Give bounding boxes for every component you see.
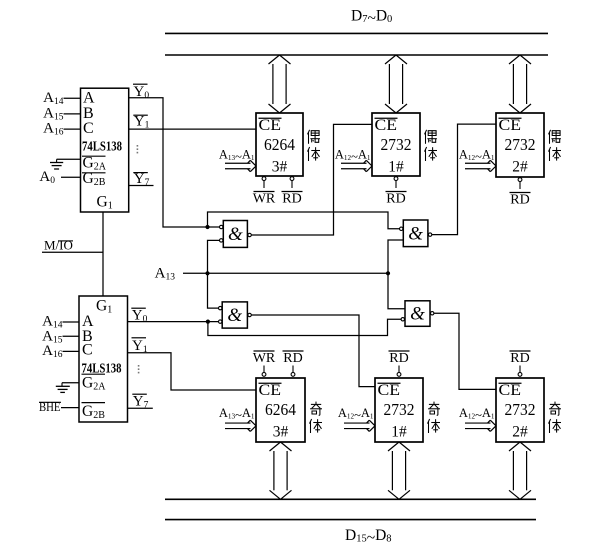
svg-text:6264: 6264 — [265, 400, 296, 419]
svg-text:WR: WR — [253, 191, 276, 206]
svg-text:G2A: G2A — [82, 374, 106, 392]
svg-text:G1: G1 — [96, 297, 112, 315]
svg-text:&: & — [228, 224, 243, 245]
svg-text:RD: RD — [510, 351, 529, 366]
svg-text:A12~A1: A12~A1 — [459, 406, 495, 422]
svg-text:CE: CE — [499, 117, 522, 134]
svg-text:RD: RD — [282, 191, 301, 206]
svg-text:A12~A1: A12~A1 — [338, 406, 374, 422]
svg-text:WR: WR — [253, 351, 276, 366]
svg-text:&: & — [227, 305, 242, 326]
svg-text:Y1: Y1 — [134, 114, 150, 131]
svg-text:3#: 3# — [273, 424, 289, 441]
svg-text:74LS138: 74LS138 — [82, 139, 122, 154]
svg-text:2#: 2# — [512, 424, 528, 441]
svg-text:D15~D8: D15~D8 — [345, 527, 392, 546]
svg-text:CE: CE — [378, 382, 401, 399]
svg-text:G2B: G2B — [82, 403, 105, 421]
svg-text:2732: 2732 — [381, 135, 412, 154]
svg-text:RD: RD — [386, 191, 405, 206]
svg-text:RD: RD — [283, 351, 302, 366]
svg-text:&: & — [410, 304, 425, 325]
svg-text:D7~D0: D7~D0 — [351, 8, 392, 27]
svg-text:CE: CE — [259, 382, 282, 399]
svg-text:M/IO: M/IO — [44, 238, 73, 253]
svg-text:3#: 3# — [272, 159, 288, 176]
svg-text:A16: A16 — [42, 343, 63, 360]
svg-text:RD: RD — [510, 192, 529, 207]
svg-text:C: C — [83, 120, 94, 137]
svg-text:G1: G1 — [97, 193, 113, 211]
svg-text:&: & — [408, 223, 423, 244]
svg-text:CE: CE — [499, 382, 522, 399]
svg-text:CE: CE — [375, 117, 398, 134]
svg-text:RD: RD — [389, 351, 408, 366]
svg-text:BHE: BHE — [39, 399, 61, 414]
svg-text:C: C — [82, 341, 93, 358]
svg-text:6264: 6264 — [264, 135, 295, 154]
svg-text:2732: 2732 — [384, 400, 415, 419]
svg-text:A13: A13 — [155, 266, 176, 283]
svg-text:CE: CE — [259, 117, 282, 134]
svg-text:1#: 1# — [388, 159, 404, 176]
svg-text:A13~A1: A13~A1 — [219, 406, 255, 422]
svg-text:2#: 2# — [512, 159, 528, 176]
svg-text:1#: 1# — [391, 424, 407, 441]
svg-text:A0: A0 — [39, 169, 55, 186]
svg-text:A: A — [83, 89, 95, 106]
svg-text:2732: 2732 — [505, 400, 536, 419]
svg-text:A16: A16 — [43, 121, 64, 138]
svg-text:A14: A14 — [43, 90, 64, 107]
svg-text:2732: 2732 — [505, 135, 536, 154]
